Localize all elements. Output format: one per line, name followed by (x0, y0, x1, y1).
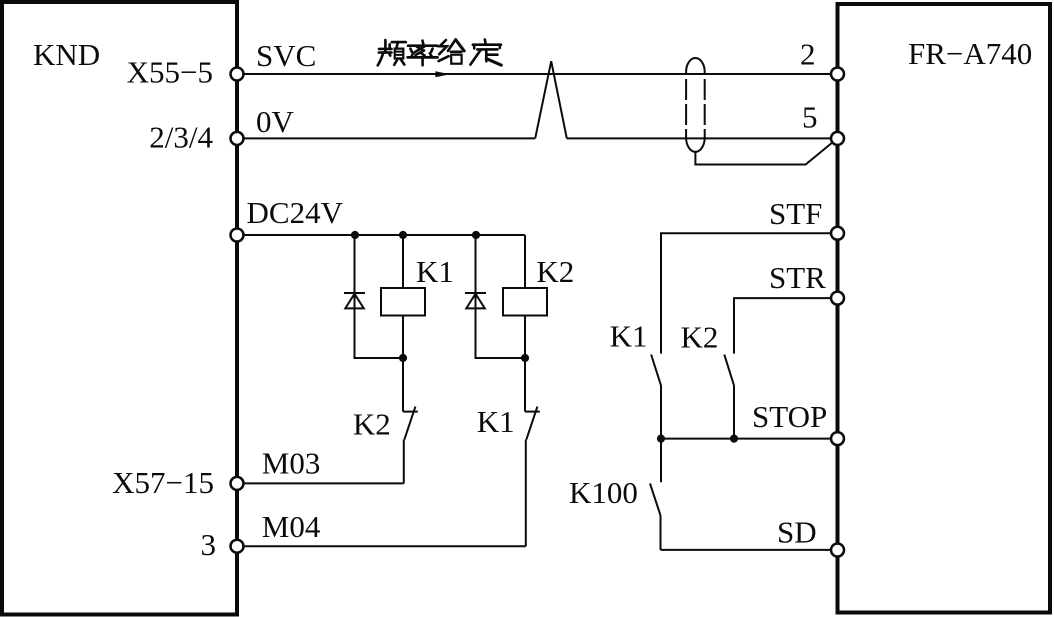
wire DC24V rail (237, 234, 525, 236)
wire K1 contact bottom to STOP node (660, 386, 662, 439)
char 给 (439, 40, 465, 64)
terminal DC24V (231, 229, 244, 242)
wire diode D2 drop from rail to node (476, 235, 526, 358)
svg-text:DC24V: DC24V (247, 195, 344, 230)
svg-text:M04: M04 (262, 509, 321, 544)
NO contact K2 (STR branch) (724, 355, 734, 386)
svg-text:X57−15: X57−15 (112, 465, 214, 500)
wire SD (661, 549, 838, 551)
wire 0V left segment (237, 137, 535, 139)
wire SVC analog line from X55-5 to terminal 2 (237, 73, 837, 75)
char 频 (378, 40, 406, 65)
terminal X57-15 (231, 477, 244, 490)
wire 0V right segment to terminal 5 (567, 137, 837, 139)
svg-text:M03: M03 (262, 445, 321, 480)
svg-text:KND: KND (33, 37, 100, 72)
wire M04 (237, 545, 526, 547)
NO contact K100 (emergency) (650, 484, 661, 516)
terminal STR (831, 292, 844, 305)
junction node K2 coil bottom (521, 354, 529, 362)
wire M03 (237, 482, 404, 484)
svg-text:K1: K1 (610, 319, 648, 354)
relay coil K2 (503, 288, 547, 316)
wire K2 contact bottom to STOP node (733, 386, 735, 439)
NO contact K1 (STF branch) (651, 355, 661, 386)
svg-text:2/3/4: 2/3/4 (149, 120, 213, 155)
diode D1 (flywheel, cathode up) (344, 293, 365, 308)
NC contact K1 (interlock in K2 branch) (525, 407, 540, 440)
inverter box FR-A740 (838, 4, 1051, 613)
CNC controller box KND (2, 2, 237, 615)
wire K1 coil bottom to contact K2 (402, 316, 404, 412)
terminal STF (831, 227, 844, 240)
wire contact K2 bottom to M03 (403, 439, 405, 483)
diode D2 (flywheel, cathode up) (465, 293, 486, 308)
terminal SD (831, 544, 844, 557)
wire STR from terminal to K2 contact (734, 298, 837, 354)
junction node STOP/K1 (657, 435, 665, 443)
terminal 2 (831, 68, 844, 81)
junction node K1 coil bottom (399, 354, 407, 362)
char 定 (470, 39, 501, 65)
svg-text:SD: SD (777, 515, 817, 550)
shielded cable symbol (stadium with dashed sides) (686, 58, 705, 152)
wire K1 coil top feed (402, 235, 404, 288)
svg-text:K2: K2 (681, 320, 719, 355)
svg-text:STOP: STOP (752, 399, 827, 434)
svg-text:STF: STF (769, 196, 822, 231)
svg-text:0V: 0V (256, 104, 295, 139)
terminal 5 (831, 132, 844, 145)
wire diode D1 drop from rail to node (355, 235, 404, 358)
svg-text:K1: K1 (477, 404, 515, 439)
wire STOP (661, 438, 837, 440)
svg-text:3: 3 (201, 527, 217, 562)
wire K2 coil bottom to contact K1 (524, 316, 526, 412)
svg-text:K2: K2 (536, 254, 574, 289)
wire contact K1 bottom to M04 (525, 439, 527, 546)
wire 0V crossover twist peak (535, 61, 567, 138)
svg-text:STR: STR (769, 260, 826, 295)
wire shield drain to terminal 5 (695, 140, 836, 165)
arrow signal direction on SVC wire (435, 71, 450, 77)
svg-text:K100: K100 (569, 475, 638, 510)
terminal STOP (831, 432, 844, 445)
terminal X55-5 (231, 68, 244, 81)
char 率 (408, 41, 438, 66)
wire STOP node down to K100 contact (660, 439, 662, 483)
terminal 3 (231, 540, 244, 553)
label 频率给定 (frequency reference), hand-drawn strokes (378, 39, 502, 65)
wire K2 coil top feed from rail end (524, 235, 526, 288)
junction node on rail at diode D2 (472, 231, 480, 239)
junction node on rail at diode D1 (351, 231, 359, 239)
junction node STOP/K2 (730, 435, 738, 443)
svg-text:5: 5 (802, 100, 818, 135)
svg-text:X55−5: X55−5 (127, 55, 213, 90)
junction node on rail at K1 coil (399, 231, 407, 239)
NC contact K2 (interlock in K1 branch) (403, 407, 418, 440)
svg-text:K2: K2 (353, 407, 391, 442)
svg-text:SVC: SVC (256, 38, 316, 73)
relay coil K1 (381, 288, 425, 316)
wire STF from terminal to K1 contact (661, 233, 837, 353)
svg-text:K1: K1 (416, 254, 454, 289)
terminal 2/3/4 (231, 132, 244, 145)
svg-text:2: 2 (800, 37, 816, 72)
svg-text:FR−A740: FR−A740 (908, 36, 1032, 71)
wire K100 bottom to SD (660, 515, 662, 550)
